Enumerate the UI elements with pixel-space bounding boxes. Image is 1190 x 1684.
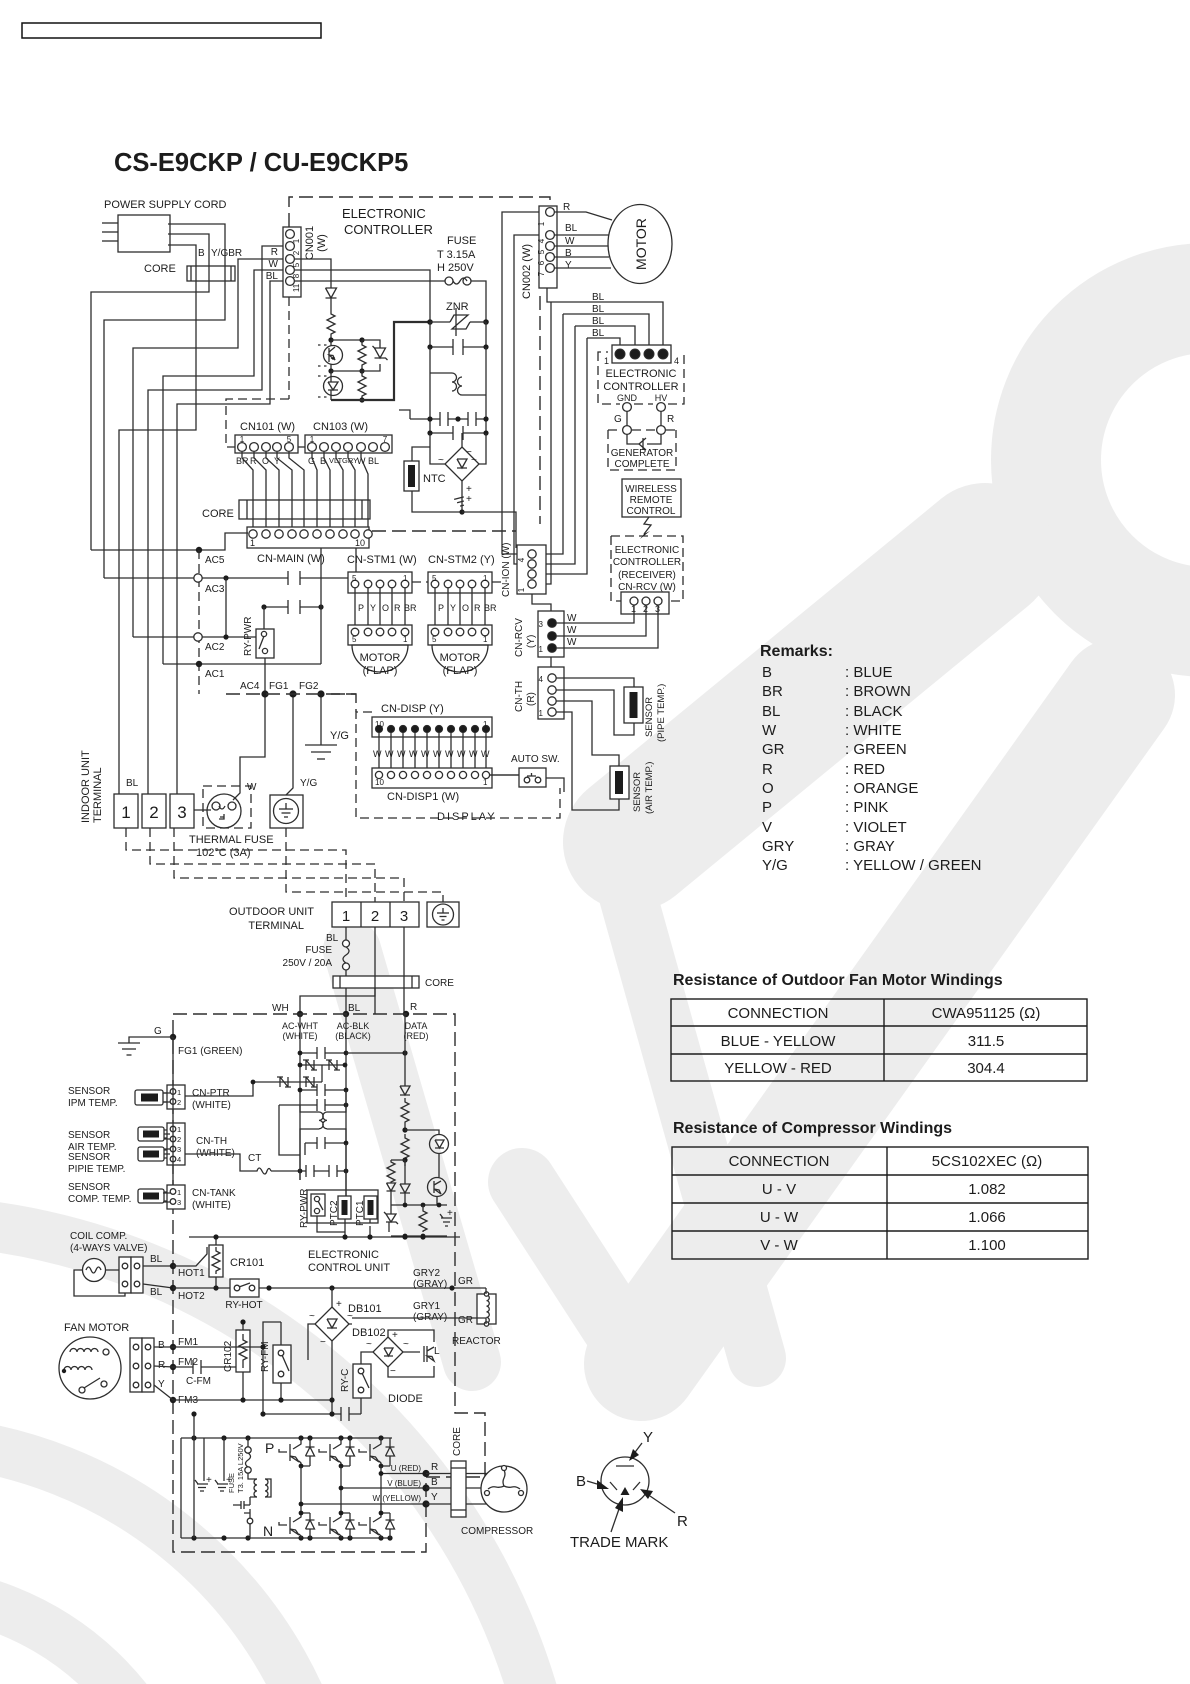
svg-text:311.5: 311.5 xyxy=(968,1033,1004,1050)
ground + plus xyxy=(440,1208,453,1226)
inductor row 1 xyxy=(298,1060,348,1082)
svg-text:FG1 (GREEN): FG1 (GREEN) xyxy=(178,1046,242,1057)
svg-text:RY-PWR: RY-PWR xyxy=(299,1189,310,1228)
svg-text:3: 3 xyxy=(177,803,186,822)
svg-text:GND: GND xyxy=(617,393,638,403)
svg-text:Y/G: Y/G xyxy=(300,778,317,789)
svg-text:W: W xyxy=(409,749,418,759)
dashed interconnect indoor terminal 2 to outdoor 2 xyxy=(150,828,375,902)
compressor core xyxy=(451,1427,466,1517)
diode leg3 bottom xyxy=(386,1513,395,1538)
svg-text:+: + xyxy=(336,1299,342,1310)
node AC2 xyxy=(133,633,256,653)
svg-text:CN-TH: CN-TH xyxy=(196,1136,227,1147)
svg-text:11: 11 xyxy=(292,283,301,292)
svg-text:5: 5 xyxy=(432,635,437,644)
svg-text:2: 2 xyxy=(177,1098,181,1107)
opto coupler PC2 LED xyxy=(318,371,343,400)
svg-text:5: 5 xyxy=(352,574,357,583)
svg-text:1: 1 xyxy=(240,435,245,444)
CN002 connector xyxy=(521,206,557,299)
IGBT leg2 top xyxy=(319,1438,341,1466)
phase U wire xyxy=(381,1473,426,1475)
svg-text:SENSOR: SENSOR xyxy=(68,1152,110,1163)
IGBT L xyxy=(388,1330,440,1377)
svg-text:1: 1 xyxy=(539,709,544,718)
svg-text:1: 1 xyxy=(292,238,301,243)
svg-text:CORE: CORE xyxy=(452,1427,463,1456)
svg-text:HOT2: HOT2 xyxy=(178,1291,205,1302)
svg-text:CS-E9CKP / CU-E9CKP5: CS-E9CKP / CU-E9CKP5 xyxy=(114,149,408,177)
svg-text:W: W xyxy=(247,782,257,793)
lightning bolt to receiver xyxy=(644,517,651,534)
capacitor C6 row xyxy=(223,548,323,664)
CN-ION connector xyxy=(501,543,546,597)
svg-text:ELECTRONIC: ELECTRONIC xyxy=(615,545,679,556)
ground + plus below bridge xyxy=(454,494,516,548)
relay RY-PWR (outdoor) xyxy=(299,1189,325,1228)
svg-text:HV: HV xyxy=(655,393,668,403)
outdoor unit dashed border xyxy=(173,1014,485,1552)
svg-text:~: ~ xyxy=(403,1339,409,1350)
svg-text:(WHITE): (WHITE) xyxy=(192,1200,231,1211)
dashed interconnect indoor terminal 3 to outdoor 3 xyxy=(174,828,404,902)
link CN-RCV to CN-TH xyxy=(550,657,552,667)
relay RY-FM xyxy=(260,1322,291,1400)
FM3 wire xyxy=(173,1399,332,1401)
link CN-ION to CN-RCV(Y) xyxy=(532,594,551,611)
FM2 node xyxy=(170,1364,176,1370)
inverter P rail xyxy=(181,1435,392,1456)
inverter N rail xyxy=(181,1523,393,1541)
CN103 connector xyxy=(305,421,392,453)
bottom collector joins xyxy=(301,1512,390,1514)
CN001 connector xyxy=(283,226,328,297)
dash between CN-STM1 and CN-STM2 xyxy=(412,581,506,583)
svg-text:R: R xyxy=(431,1462,438,1473)
svg-text:B: B xyxy=(762,664,772,681)
svg-text:CORE: CORE xyxy=(144,263,176,275)
stair wire bundle to AC nodes and indoor terminal xyxy=(91,224,285,794)
svg-text:CN-RCV (W): CN-RCV (W) xyxy=(618,582,676,593)
resistor CR102 xyxy=(223,1322,250,1400)
CN-DISP1 (W) connector xyxy=(372,768,492,803)
IGBT leg1 top xyxy=(279,1438,301,1466)
capacitor C20 xyxy=(300,1407,361,1421)
svg-text:Y/GBR: Y/GBR xyxy=(211,248,242,259)
svg-text:: RED: : RED xyxy=(845,761,885,778)
svg-text:R: R xyxy=(410,1002,417,1013)
phase verticals xyxy=(301,1466,381,1513)
fan motor xyxy=(59,1337,121,1399)
capacitor C12 xyxy=(279,1099,348,1155)
svg-text:4: 4 xyxy=(517,557,526,562)
svg-text:CR102: CR102 xyxy=(223,1340,234,1372)
diode leg1 top xyxy=(306,1438,315,1466)
svg-text:Y: Y xyxy=(431,1492,438,1503)
relay RY-PWR (indoor) xyxy=(243,617,274,694)
svg-text:COIL COMP.: COIL COMP. xyxy=(70,1231,127,1242)
svg-text:GR: GR xyxy=(458,1315,473,1326)
svg-text:G: G xyxy=(154,1026,162,1037)
svg-text:: BLACK: : BLACK xyxy=(845,703,903,720)
relay RY-C xyxy=(340,1364,371,1398)
svg-text:AC2: AC2 xyxy=(205,642,225,653)
svg-text:AC5: AC5 xyxy=(205,555,225,566)
svg-text:ELECTRONIC: ELECTRONIC xyxy=(308,1249,379,1261)
svg-text:TRADE MARK: TRADE MARK xyxy=(570,1534,668,1551)
svg-text:MOTOR: MOTOR xyxy=(633,218,649,270)
node AC4 xyxy=(261,690,268,697)
svg-text:1: 1 xyxy=(604,356,609,366)
svg-text:REMOTE: REMOTE xyxy=(630,495,673,506)
sensor ipm element xyxy=(135,1090,170,1105)
diode bridge DB1 xyxy=(430,433,486,495)
HOT2 wire to GR xyxy=(173,1287,486,1289)
svg-text:BL: BL xyxy=(762,703,780,720)
svg-text:DIODE: DIODE xyxy=(388,1393,423,1405)
svg-text:5: 5 xyxy=(352,635,357,644)
node AC3 with capacitor C5 xyxy=(104,548,356,595)
coil (4-ways valve) xyxy=(74,1259,125,1297)
svg-text:W: W xyxy=(469,749,478,759)
svg-text:DISPLAY: DISPLAY xyxy=(437,811,497,823)
svg-text:BL: BL xyxy=(348,1003,361,1014)
CN-STM1 connector xyxy=(347,554,417,593)
svg-text:CONNECTION: CONNECTION xyxy=(728,1005,829,1022)
svg-text:B: B xyxy=(576,1473,586,1490)
fuse F2 xyxy=(227,1438,257,1493)
svg-text:V (BLUE): V (BLUE) xyxy=(387,1479,421,1488)
fuse F1 xyxy=(445,277,486,322)
svg-text:W: W xyxy=(397,749,406,759)
svg-text:+: + xyxy=(447,1208,453,1219)
svg-text:CN-TANK: CN-TANK xyxy=(192,1188,236,1199)
resistor R13 xyxy=(419,1205,427,1232)
IGBT leg3 top xyxy=(359,1438,381,1466)
svg-text:GR: GR xyxy=(762,741,785,758)
CN-TANK connector xyxy=(163,1185,236,1211)
wireless remote control box xyxy=(622,479,681,517)
sensor bus vertical xyxy=(172,1037,174,1185)
svg-text:ZNR: ZNR xyxy=(446,301,469,313)
flap motor 1 connector xyxy=(348,625,412,645)
auto switch xyxy=(511,754,560,787)
svg-text:R: R xyxy=(677,1513,688,1530)
table 2: Resistance of Compressor Windings xyxy=(672,1120,1088,1259)
CN101 connector xyxy=(235,421,298,453)
CN-TH (outdoor) connector xyxy=(164,1123,235,1165)
svg-text:8: 8 xyxy=(292,273,301,278)
svg-text:INDOOR UNIT: INDOOR UNIT xyxy=(80,750,92,823)
svg-text:FG2: FG2 xyxy=(299,681,319,692)
svg-text:FG1: FG1 xyxy=(269,681,289,692)
svg-text:~: ~ xyxy=(347,1311,353,1322)
svg-text:P: P xyxy=(762,799,772,816)
svg-text:1: 1 xyxy=(177,1188,181,1197)
wires CN-TH to pipe sensor xyxy=(556,678,634,687)
svg-text:U (RED): U (RED) xyxy=(391,1464,422,1473)
svg-text:GRY2: GRY2 xyxy=(413,1268,440,1279)
svg-text:V - W: V - W xyxy=(760,1237,798,1254)
AC-BLK rail xyxy=(345,1014,347,1196)
relay RY-HOT xyxy=(225,1279,262,1311)
NTC thermistor xyxy=(404,447,462,512)
svg-text:W: W xyxy=(457,749,466,759)
svg-text:(BLACK): (BLACK) xyxy=(335,1031,371,1041)
motor (flap) 1 xyxy=(352,645,408,677)
node A (opto top) xyxy=(328,337,333,342)
wires CN-STM2 to flap connector xyxy=(435,588,485,625)
svg-text:W: W xyxy=(421,749,430,759)
zener diode ZD1 xyxy=(331,340,388,371)
wires CN002 to motor xyxy=(554,212,612,268)
flap motor 2 connector xyxy=(428,625,492,645)
svg-text:HOT1: HOT1 xyxy=(178,1268,205,1279)
svg-text:(Y): (Y) xyxy=(526,635,537,648)
svg-text:2: 2 xyxy=(292,250,301,255)
node AC1 xyxy=(163,661,321,680)
svg-text:N: N xyxy=(263,1523,273,1539)
svg-text:SENSOR: SENSOR xyxy=(68,1086,110,1097)
wires CN-STM1 to flap connector with P Y O R BR labels xyxy=(355,588,405,625)
wires fan motor to nodes xyxy=(154,1347,173,1400)
svg-text:W: W xyxy=(762,722,777,739)
svg-text:10: 10 xyxy=(375,778,384,787)
svg-text:+: + xyxy=(466,494,472,505)
svg-text:CONTROLLER: CONTROLLER xyxy=(344,222,433,237)
svg-text:RY-HOT: RY-HOT xyxy=(225,1300,262,1311)
CN-RCV (Y) connector xyxy=(514,611,564,657)
electronic controller (generator) dashed box xyxy=(598,352,684,411)
svg-text:1: 1 xyxy=(310,435,315,444)
svg-text:COMP. TEMP.: COMP. TEMP. xyxy=(68,1194,131,1205)
svg-text:P: P xyxy=(265,1440,274,1456)
IGBT leg2 bottom xyxy=(319,1513,341,1538)
svg-text:(PIPE TEMP.): (PIPE TEMP.) xyxy=(656,684,667,742)
svg-text:R: R xyxy=(762,761,773,778)
svg-text:7: 7 xyxy=(537,271,546,276)
compressor motor xyxy=(461,1466,533,1538)
wire W CN001 to ZNR node xyxy=(295,270,430,322)
FM3 node xyxy=(170,1397,176,1403)
svg-text:1: 1 xyxy=(483,574,488,583)
wire CN-DISP1 pin1 to auto switch xyxy=(490,775,564,792)
outdoor terminal block 1 2 3 xyxy=(332,902,419,927)
inductor row 2 with feed from sensor bus xyxy=(185,1077,322,1096)
resistor R1 xyxy=(327,311,335,340)
svg-text:R: R xyxy=(474,603,481,613)
core (outdoor) xyxy=(333,976,454,989)
svg-text:FUSE: FUSE xyxy=(227,1473,236,1493)
fan motor (indoor) xyxy=(608,205,672,284)
svg-text:Remarks:: Remarks: xyxy=(760,643,833,660)
svg-text:: WHITE: : WHITE xyxy=(845,722,902,739)
svg-text:: GRAY: : GRAY xyxy=(845,838,895,855)
svg-text:DATA: DATA xyxy=(405,1021,428,1031)
svg-text:1: 1 xyxy=(539,645,544,654)
svg-text:1: 1 xyxy=(121,803,130,822)
dashed right border of indoor controller xyxy=(539,296,541,524)
diode leg2 bottom xyxy=(346,1513,355,1538)
svg-text:CN-ION (W): CN-ION (W) xyxy=(501,543,512,597)
svg-text:W: W xyxy=(567,637,577,648)
CN-MAIN connector xyxy=(247,527,372,565)
CN-TH (R) connector xyxy=(514,667,564,719)
CN-STM2 connector xyxy=(428,554,495,593)
svg-text:W: W xyxy=(481,749,490,759)
header box xyxy=(22,23,321,38)
outdoor earth terminal xyxy=(427,902,459,927)
svg-text:10: 10 xyxy=(355,538,365,548)
svg-text:W: W xyxy=(445,749,454,759)
svg-text:+: + xyxy=(392,1330,398,1341)
svg-text:(FLAP): (FLAP) xyxy=(363,665,398,677)
diode D11 on rail xyxy=(400,1160,410,1205)
svg-text:FUSE: FUSE xyxy=(447,235,476,247)
svg-text:U - V: U - V xyxy=(762,1181,796,1198)
svg-text:2: 2 xyxy=(371,908,379,925)
svg-text:: VIOLET: : VIOLET xyxy=(845,819,907,836)
svg-text:GR: GR xyxy=(458,1276,473,1287)
svg-text:B: B xyxy=(158,1340,165,1351)
svg-text:Resistance of Outdoor Fan Moto: Resistance of Outdoor Fan Motor Windings xyxy=(673,972,1003,989)
svg-text:4: 4 xyxy=(539,675,544,684)
PTC2 thermistor xyxy=(329,1196,351,1226)
svg-text:2: 2 xyxy=(177,1135,181,1144)
svg-text:P: P xyxy=(438,603,444,613)
svg-text:O: O xyxy=(762,780,774,797)
svg-text:5CS102XEC (Ω): 5CS102XEC (Ω) xyxy=(932,1153,1042,1170)
svg-text:P: P xyxy=(358,603,364,613)
svg-text:Y: Y xyxy=(565,260,572,271)
svg-text:CN-RCV: CN-RCV xyxy=(514,618,525,657)
ground symbol Y/G xyxy=(305,694,349,759)
phase W wire xyxy=(301,1503,426,1505)
svg-text:W (YELLOW): W (YELLOW) xyxy=(373,1494,422,1503)
node AC5 xyxy=(91,533,248,694)
svg-text:CONTROL: CONTROL xyxy=(627,506,676,517)
transformer T2 xyxy=(300,1090,346,1155)
svg-text:Y: Y xyxy=(450,603,456,613)
sensor (pipe temp.) xyxy=(624,684,667,742)
svg-text:GRY: GRY xyxy=(762,838,794,855)
svg-text:AUTO SW.: AUTO SW. xyxy=(511,754,560,765)
svg-text:304.4: 304.4 xyxy=(967,1060,1005,1077)
svg-text:POWER SUPPLY CORD: POWER SUPPLY CORD xyxy=(104,199,227,211)
ground stub xyxy=(399,410,410,419)
svg-text:W: W xyxy=(567,625,577,636)
capacitor C1 xyxy=(427,322,488,355)
svg-text:1: 1 xyxy=(342,908,350,925)
sensor pipie element xyxy=(138,1147,170,1161)
svg-text:R: R xyxy=(158,1360,165,1371)
svg-text:~: ~ xyxy=(471,455,477,466)
svg-text:CONTROLLER: CONTROLLER xyxy=(603,381,678,393)
wires CN-TH to air sensor xyxy=(556,701,619,766)
resistor CR101 xyxy=(173,1234,264,1288)
wires DB102 loop xyxy=(361,1352,420,1414)
svg-text:T3. 15A L250V: T3. 15A L250V xyxy=(236,1443,245,1493)
dashed run CN-MAIN to CN-ION xyxy=(372,530,516,532)
dashed bottom border of indoor controller xyxy=(226,693,356,695)
phase V wire xyxy=(341,1487,426,1489)
node FG1 xyxy=(289,690,296,697)
svg-text:~: ~ xyxy=(438,455,444,466)
thermal fuse xyxy=(189,786,274,859)
electrolytic capacitor CE1 xyxy=(195,1438,212,1491)
svg-text:R: R xyxy=(394,603,401,613)
svg-text:1: 1 xyxy=(403,635,408,644)
svg-text:(R): (R) xyxy=(526,692,537,706)
top emitter joins xyxy=(301,1465,390,1467)
svg-text:Y: Y xyxy=(370,603,376,613)
CN-PTR connector xyxy=(163,1085,231,1111)
node FG2 xyxy=(317,690,324,697)
PTC1 thermistor xyxy=(355,1196,377,1226)
svg-text:OUTDOOR UNIT: OUTDOOR UNIT xyxy=(229,906,314,918)
svg-text:DB102: DB102 xyxy=(352,1327,386,1339)
wire CN001 pin1 to CN002 pin1 (top dashed run) xyxy=(289,197,550,227)
svg-text:: YELLOW / GREEN: : YELLOW / GREEN xyxy=(845,857,981,874)
GRY1 wire from DB101 xyxy=(352,1318,486,1324)
IGBT leg3 bottom xyxy=(359,1513,381,1538)
svg-text:RY-C: RY-C xyxy=(340,1369,351,1392)
diode leg2 top xyxy=(346,1438,355,1466)
svg-text:THERMAL FUSE: THERMAL FUSE xyxy=(189,834,274,846)
electronic controller (receiver) dashed box xyxy=(611,536,683,601)
resistor R11 xyxy=(401,1134,409,1166)
svg-text:1: 1 xyxy=(483,635,488,644)
svg-text:1: 1 xyxy=(177,1088,181,1097)
svg-text:Y/G: Y/G xyxy=(330,730,349,742)
svg-text:CN-MAIN (W): CN-MAIN (W) xyxy=(257,553,325,565)
svg-text:CONTROLLER: CONTROLLER xyxy=(613,557,681,568)
svg-text:CR101: CR101 xyxy=(230,1257,264,1269)
resistor R12 xyxy=(387,1160,405,1183)
IGBT leg1 bottom xyxy=(279,1513,301,1538)
wires PTC bottoms to CR101 top rail xyxy=(317,1216,370,1237)
capacitor C13 xyxy=(305,1137,348,1155)
dashed earth interconnect xyxy=(286,828,443,902)
junction nodes on outdoor border xyxy=(297,1011,303,1017)
transformer T3 xyxy=(250,1479,271,1497)
rails CN002 to CN-ION xyxy=(502,212,539,554)
svg-text:ELECTRONIC: ELECTRONIC xyxy=(342,206,426,221)
svg-text:Y: Y xyxy=(643,1429,653,1446)
svg-text:RY-PWR: RY-PWR xyxy=(243,617,254,656)
svg-text:ELECTRONIC: ELECTRONIC xyxy=(606,368,677,380)
CN-DISP (Y) connector xyxy=(372,703,492,737)
svg-text:(GRAY): (GRAY) xyxy=(413,1279,447,1290)
svg-text:MOTOR: MOTOR xyxy=(360,652,401,664)
motor (flap) 2 xyxy=(432,645,488,677)
svg-text:GENERATOR: GENERATOR xyxy=(611,448,673,459)
svg-text:3: 3 xyxy=(177,1198,181,1207)
svg-text:AC1: AC1 xyxy=(205,669,225,680)
svg-text:: ORANGE: : ORANGE xyxy=(845,780,918,797)
AC-WHT rail xyxy=(299,1014,301,1180)
svg-text:R: R xyxy=(271,247,278,258)
dashed border CN001 to CN101 xyxy=(226,297,289,447)
svg-text:4: 4 xyxy=(537,238,546,243)
capacitor C14 C15 row xyxy=(298,1143,349,1197)
svg-text:1: 1 xyxy=(177,1125,181,1134)
bottom join wire xyxy=(391,1235,447,1237)
svg-text:DB101: DB101 xyxy=(348,1303,382,1315)
svg-text:(FLAP): (FLAP) xyxy=(443,665,478,677)
svg-text:(AIR TEMP.): (AIR TEMP.) xyxy=(644,762,655,814)
